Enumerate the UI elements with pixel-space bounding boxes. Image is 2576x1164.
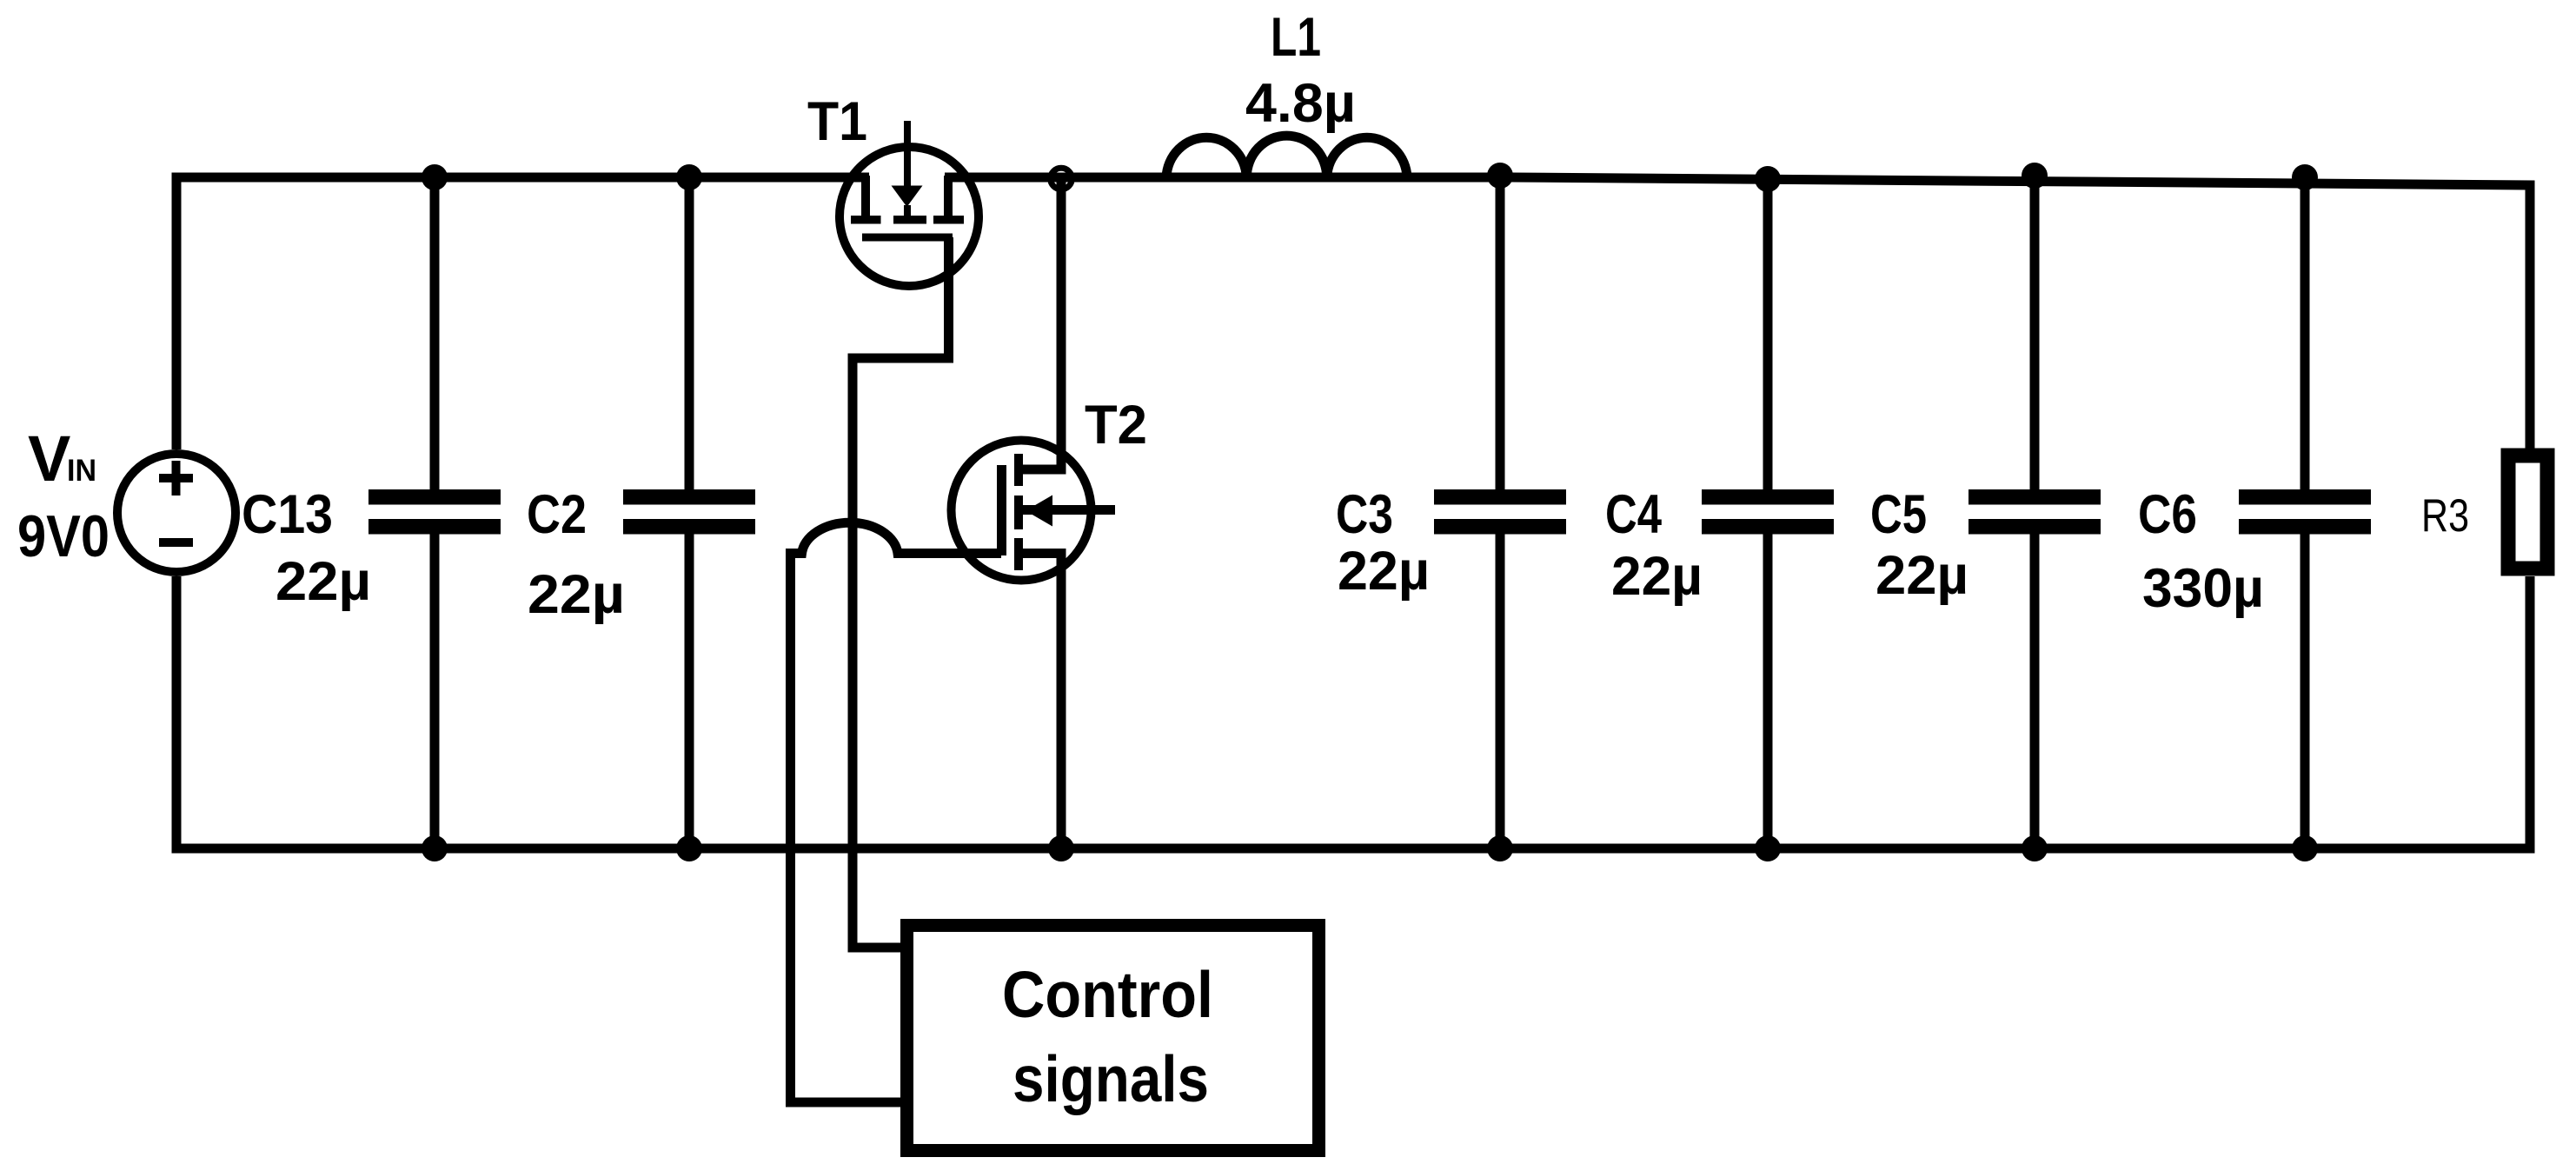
svg-text:330µ: 330µ <box>2142 558 2264 619</box>
svg-text:4.8µ: 4.8µ <box>1245 73 1356 134</box>
svg-text:T1: T1 <box>807 91 867 152</box>
svg-text:C5: C5 <box>1870 484 1927 545</box>
svg-text:C6: C6 <box>2138 484 2197 545</box>
svg-text:signals: signals <box>1012 1042 1209 1115</box>
svg-text:IN: IN <box>67 454 96 488</box>
svg-text:C3: C3 <box>1336 484 1393 545</box>
svg-text:L1: L1 <box>1271 7 1321 68</box>
svg-text:9V0: 9V0 <box>17 503 110 569</box>
svg-text:T2: T2 <box>1085 395 1147 456</box>
svg-text:22µ: 22µ <box>528 564 625 625</box>
svg-text:R3: R3 <box>2421 490 2469 542</box>
svg-text:C13: C13 <box>242 484 333 545</box>
svg-text:22µ: 22µ <box>276 551 371 612</box>
svg-text:Control: Control <box>1002 958 1213 1031</box>
svg-text:22µ: 22µ <box>1338 541 1430 602</box>
svg-text:C4: C4 <box>1605 484 1662 545</box>
svg-text:V: V <box>28 422 70 495</box>
svg-text:22µ: 22µ <box>1611 546 1703 607</box>
svg-text:C2: C2 <box>527 484 587 545</box>
svg-text:22µ: 22µ <box>1876 545 1969 606</box>
